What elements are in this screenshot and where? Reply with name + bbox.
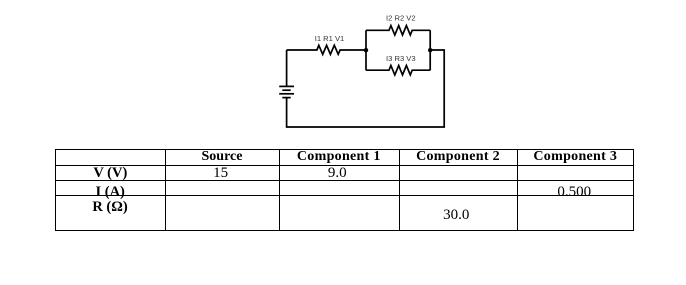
svg-text:I2 R2 V2: I2 R2 V2 — [386, 13, 416, 22]
svg-text:I3 R3 V3: I3 R3 V3 — [386, 54, 416, 63]
svg-text:I1 R1 V1: I1 R1 V1 — [315, 34, 345, 43]
